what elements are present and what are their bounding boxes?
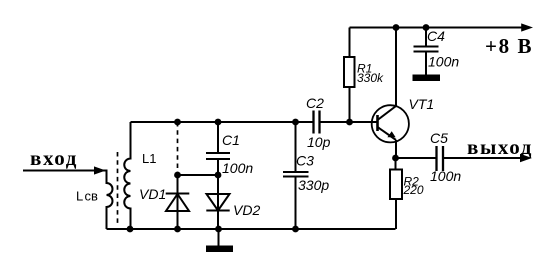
svg-text:C2: C2 — [306, 95, 324, 111]
svg-text:VD2: VD2 — [233, 202, 260, 218]
svg-text:100n: 100n — [428, 54, 459, 70]
svg-text:выход: выход — [467, 135, 533, 159]
svg-text:220: 220 — [403, 183, 424, 197]
svg-text:100n: 100n — [430, 168, 461, 184]
svg-text:вход: вход — [30, 146, 78, 170]
svg-text:100n: 100n — [222, 160, 253, 176]
svg-text:330p: 330p — [298, 177, 329, 193]
svg-text:C5: C5 — [430, 130, 448, 146]
svg-text:св: св — [85, 189, 99, 204]
svg-text:L: L — [76, 189, 83, 204]
svg-text:C3: C3 — [296, 153, 314, 169]
svg-text:VD1: VD1 — [139, 186, 166, 202]
svg-text:330k: 330k — [357, 71, 384, 85]
svg-text:+8 В: +8 В — [485, 34, 533, 58]
svg-text:L1: L1 — [142, 151, 156, 166]
svg-text:C1: C1 — [222, 132, 240, 148]
svg-text:C4: C4 — [427, 28, 445, 44]
svg-text:VT1: VT1 — [409, 96, 435, 112]
svg-text:10p: 10p — [307, 134, 331, 150]
